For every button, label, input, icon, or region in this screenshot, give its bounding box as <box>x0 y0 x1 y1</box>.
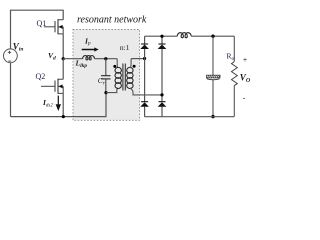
diode D4 <box>158 102 167 107</box>
node Vd <box>62 57 65 60</box>
transistor Q1 <box>44 19 63 34</box>
inductor Lo output filter <box>177 33 191 38</box>
diode D1 <box>140 44 149 49</box>
wire primary top lead <box>117 59 118 68</box>
current arrow Ids2 <box>56 96 61 111</box>
wire Vd to Q2 drain <box>62 59 64 80</box>
wire left rail lower <box>10 63 12 117</box>
resistor Ro <box>232 62 238 86</box>
wire rectifier right branch <box>161 36 163 117</box>
svg-text:Vin: Vin <box>13 41 24 52</box>
wire top rail <box>11 10 64 49</box>
transformer T1 secondary winding <box>127 67 133 88</box>
wire cap branch lower <box>212 80 214 117</box>
svg-text:Ro: Ro <box>227 52 235 62</box>
wire secondary top to rectifier <box>131 58 145 60</box>
wire bottom primary rail <box>11 93 107 117</box>
current arrow Ip <box>82 47 99 51</box>
wire Vd node to inductor <box>63 58 82 60</box>
inductor Llkp <box>83 56 95 60</box>
diode D2 <box>158 44 167 49</box>
node cap bottom <box>211 115 214 118</box>
node rectifier mid left <box>143 57 146 60</box>
node top rail right branch <box>160 35 163 38</box>
wire Q1 source to Vd <box>62 34 64 59</box>
voltage source Vin <box>3 49 17 63</box>
svg-text:+: + <box>243 55 248 64</box>
diode D3 <box>140 102 149 107</box>
wire inductor to Cr node to primary <box>95 58 118 60</box>
wire primary bottom lead <box>106 88 118 92</box>
node secondary bottom to right branch <box>160 93 163 96</box>
wire secondary bottom rail <box>145 116 235 118</box>
node Cr top <box>104 57 107 60</box>
polarity dot secondary <box>133 65 136 68</box>
wire secondary bottom lead <box>130 88 162 95</box>
node filter cap top <box>211 35 214 38</box>
node bottom rail Q2 <box>62 115 65 118</box>
svg-text:Ids2: Ids2 <box>42 98 53 108</box>
svg-text:Vd: Vd <box>48 51 56 61</box>
polarity dot primary <box>113 65 116 68</box>
svg-text:Q2: Q2 <box>36 72 46 81</box>
wire secondary top rail <box>145 35 178 37</box>
transistor Q2 <box>41 79 63 94</box>
wire Q2 source to bottom rail <box>62 93 64 116</box>
node Cr bottom junction <box>104 91 107 94</box>
capacitor Co output <box>207 75 221 80</box>
wire secondary top lead <box>130 59 131 68</box>
wire output right branch lower <box>233 86 235 117</box>
wire rectifier left branch <box>144 36 146 117</box>
transformer T1 primary winding <box>115 67 121 88</box>
wire inductor to output <box>191 35 234 37</box>
svg-text:VO: VO <box>240 72 251 84</box>
wire Cr branch upper <box>105 59 107 75</box>
wire Cr branch lower <box>105 79 107 92</box>
resonant network box <box>73 30 140 121</box>
svg-text:resonant network: resonant network <box>77 14 147 25</box>
wire output right branch upper <box>233 36 235 61</box>
capacitor Cr <box>101 76 110 79</box>
transformer core <box>123 64 125 91</box>
wire cap branch upper <box>212 36 214 75</box>
svg-text:n:1: n:1 <box>120 43 130 52</box>
svg-text:-: - <box>243 94 246 103</box>
